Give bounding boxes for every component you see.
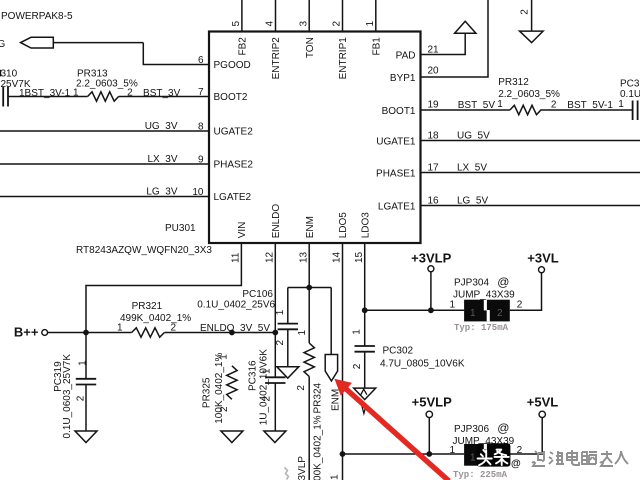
svg-text:7: 7 [198,87,204,98]
svg-text:9: 9 [198,155,204,166]
svg-text:ENLDO_3V_5V: ENLDO_3V_5V [200,323,270,334]
svg-text:17: 17 [428,163,440,174]
svg-text:11: 11 [231,252,242,263]
svg-text:100K_0402_1%: 100K_0402_1% [214,353,225,424]
svg-text:PR321: PR321 [132,301,163,312]
svg-text:LGATE2: LGATE2 [214,192,252,203]
svg-text:499K_0402_1%: 499K_0402_1% [120,313,191,324]
svg-text:1: 1 [470,452,476,463]
svg-text:ENLDO: ENLDO [271,204,282,239]
svg-text:LX_5V: LX_5V [457,163,487,174]
svg-text:2: 2 [551,100,557,111]
svg-text:18: 18 [428,131,440,142]
svg-text:FB1: FB1 [371,37,382,56]
svg-text:LG_5V: LG_5V [457,196,488,207]
svg-text:310: 310 [1,68,18,79]
svg-text:2.2_0603_5%: 2.2_0603_5% [76,79,138,90]
svg-text:ENTRIP1: ENTRIP1 [338,37,349,80]
svg-text:+5VL: +5VL [527,395,558,410]
svg-text:+3VL: +3VL [527,251,558,266]
svg-text:PAD: PAD [396,51,416,62]
svg-text:BST_3V: BST_3V [143,88,181,99]
svg-text:PHASE2: PHASE2 [214,160,254,171]
svg-text:2: 2 [171,323,177,334]
svg-text:RT8243AZQW_WQFN20_3X3: RT8243AZQW_WQFN20_3X3 [76,245,212,256]
svg-text:PC3: PC3 [620,79,640,90]
svg-text:1: 1 [470,308,476,319]
svg-text:FB2: FB2 [238,37,249,56]
svg-text:LDO3: LDO3 [360,212,371,239]
svg-text:2: 2 [296,385,307,391]
svg-text:POWERPAK8-5: POWERPAK8-5 [1,11,73,22]
svg-text:@: @ [511,459,521,470]
svg-text:1: 1 [365,21,376,27]
svg-text:+3VLP: +3VLP [411,251,451,266]
svg-text:10: 10 [192,187,204,198]
svg-text:3VLP: 3VLP [297,456,308,480]
svg-text:0.1U_0402_25V6: 0.1U_0402_25V6 [197,299,275,310]
svg-text:VIN: VIN [237,222,248,239]
svg-text:1: 1 [78,360,89,366]
svg-text:+5VLP: +5VLP [412,395,452,410]
svg-text:LGATE1: LGATE1 [378,202,416,213]
svg-text:1U_0402_10V6K: 1U_0402_10V6K [259,349,270,426]
svg-text:UG_5V: UG_5V [457,131,490,142]
svg-text:6: 6 [198,55,204,66]
svg-text:LX_3V: LX_3V [147,154,177,165]
svg-text:1: 1 [297,330,308,336]
svg-text:PC316: PC316 [248,360,259,391]
svg-text:15: 15 [354,251,365,263]
svg-text:B++: B++ [14,325,39,340]
svg-text:UG_3V: UG_3V [145,121,178,132]
svg-text:3: 3 [298,21,309,27]
svg-text:13: 13 [298,251,309,263]
svg-text:20: 20 [428,66,440,77]
svg-text:16: 16 [428,196,440,207]
svg-text:UGATE1: UGATE1 [376,137,416,148]
svg-text:ENM: ENM [305,216,316,238]
svg-text:Typ: 175mA: Typ: 175mA [454,323,509,333]
svg-text:BYP1: BYP1 [390,73,416,84]
svg-text:2: 2 [497,308,503,319]
svg-text:8: 8 [198,122,204,133]
svg-text:12: 12 [264,251,275,263]
svg-text:4.7U_0805_10V6K: 4.7U_0805_10V6K [380,359,465,370]
svg-text:PC302: PC302 [383,346,414,357]
svg-text:Typ: 225mA: Typ: 225mA [453,470,508,480]
svg-text:2: 2 [332,21,343,27]
svg-text:1: 1 [351,329,362,335]
svg-text:0.1U: 0.1U [620,89,640,100]
svg-text:JUMP_43X39: JUMP_43X39 [453,290,515,301]
svg-text:@: @ [497,275,509,289]
svg-text:PU301: PU301 [165,223,196,234]
svg-text:2: 2 [517,299,523,310]
svg-text:PR324: PR324 [313,382,324,413]
svg-text:5: 5 [231,21,242,27]
svg-text:2: 2 [517,445,523,456]
svg-text:1: 1 [330,474,341,480]
svg-text:2: 2 [519,9,530,15]
svg-text:ENTRIP2: ENTRIP2 [271,37,282,80]
svg-text:G: G [0,39,6,50]
svg-text:LDO5: LDO5 [338,212,349,239]
svg-text:PGOOD: PGOOD [214,60,251,71]
svg-text:19: 19 [428,100,440,111]
svg-text:@: @ [497,421,509,435]
svg-text:UGATE2: UGATE2 [214,127,254,138]
svg-text:PJP304: PJP304 [454,278,489,289]
svg-text:PR312: PR312 [498,77,529,88]
svg-text:1: 1 [275,309,286,315]
svg-text:1: 1 [497,99,503,110]
svg-text:BST_5V-1: BST_5V-1 [567,100,613,111]
svg-text:1: 1 [618,99,624,110]
svg-text:1: 1 [117,323,123,334]
svg-text:BST_5V: BST_5V [458,100,496,111]
svg-text:14: 14 [332,251,343,263]
svg-text:21: 21 [428,45,440,56]
svg-text:PJP306: PJP306 [454,424,489,435]
svg-text:PR325: PR325 [201,377,212,408]
svg-text:TON: TON [305,37,316,58]
svg-text:LG_3V: LG_3V [146,187,177,198]
svg-text:2: 2 [352,363,363,369]
svg-text:2: 2 [76,395,87,401]
svg-text:BOOT1: BOOT1 [382,106,416,117]
svg-text:100K_0402_1%: 100K_0402_1% [313,415,324,480]
svg-text:4: 4 [265,21,276,27]
svg-text:2: 2 [275,340,286,346]
svg-text:1: 1 [449,299,455,310]
svg-text:PHASE1: PHASE1 [376,169,416,180]
svg-text:0.1U_0603_25V7K: 0.1U_0603_25V7K [62,354,73,439]
svg-text:1BST_3V-1: 1BST_3V-1 [19,88,71,99]
svg-text:BOOT2: BOOT2 [214,92,248,103]
